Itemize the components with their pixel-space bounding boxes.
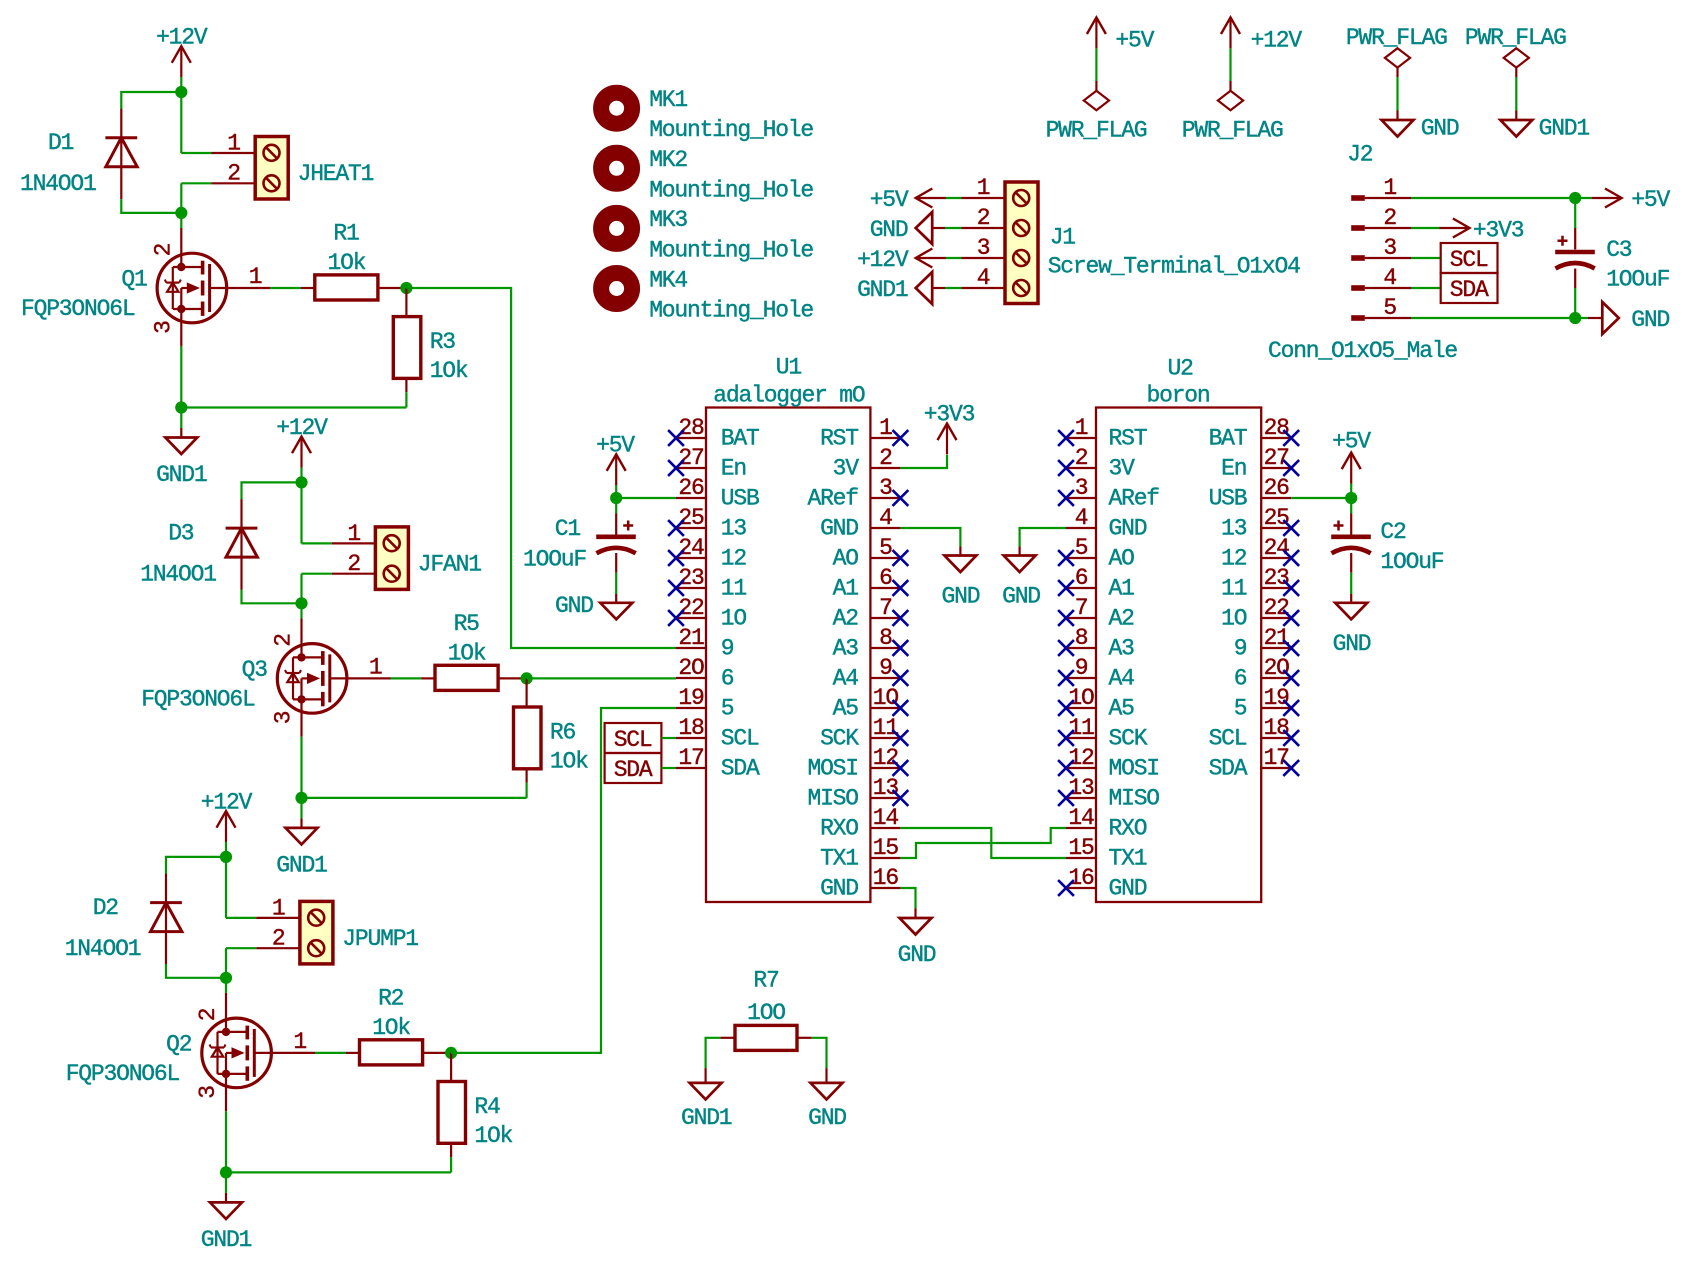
wire: [180, 92, 182, 153]
svg-text:GND: GND: [820, 876, 858, 902]
svg-text:+5V: +5V: [596, 432, 635, 458]
J1 pin 3: [962, 257, 1006, 259]
U1 pin 17 SDA: [676, 767, 706, 769]
wire J2 pin3 SCL: [1411, 257, 1441, 259]
svg-text:12: 12: [873, 745, 899, 771]
svg-text:GND: GND: [1421, 115, 1459, 141]
U1 pin 15 TX1: [870, 857, 900, 859]
power +5V (J1): [916, 197, 946, 199]
svg-text:D1: D1: [48, 130, 74, 156]
wire U1 pin16 GND: [900, 888, 915, 909]
svg-text:1O: 1O: [1221, 606, 1247, 632]
ground GND (U1 pin4): [944, 556, 976, 573]
power flag PWR_FLAG 3: [1385, 48, 1410, 67]
ground GND (C2): [1335, 603, 1367, 620]
transistor Q1 gate pin 1: [227, 287, 271, 289]
svg-text:SCL: SCL: [1450, 247, 1488, 273]
wire: [812, 1038, 827, 1068]
svg-text:PWR_FLAG: PWR_FLAG: [1346, 25, 1447, 51]
U1 pin 18 SCL: [676, 737, 706, 739]
svg-text:+3V3: +3V3: [1473, 218, 1524, 244]
svg-text:12: 12: [721, 546, 747, 572]
svg-text:R3: R3: [430, 329, 456, 355]
svg-text:3: 3: [150, 321, 176, 334]
J2 pin 3: [1351, 255, 1365, 261]
U2 pin 13 MISO: [1066, 797, 1096, 799]
svg-text:3: 3: [1383, 235, 1396, 261]
svg-text:A2: A2: [1109, 606, 1135, 632]
svg-text:19: 19: [678, 685, 704, 711]
power +3V3 (J2): [1440, 227, 1470, 229]
U2 pin 4 GND: [1066, 527, 1096, 529]
wire: [270, 287, 301, 289]
svg-text:boron: boron: [1146, 383, 1209, 409]
svg-text:R4: R4: [474, 1094, 500, 1120]
resistor R6 10k: [525, 678, 527, 707]
svg-text:6: 6: [1234, 666, 1247, 692]
wire U1 TX1 to U2 RX0: [900, 828, 1066, 858]
transistor Q2 FQP30N06L: [202, 1018, 272, 1088]
svg-text:1OOuF: 1OOuF: [1380, 549, 1443, 575]
ground GND (J1): [932, 227, 945, 229]
connector JHEAT1 pin 2: [212, 182, 256, 184]
junction: [175, 207, 187, 219]
J2 pin 1: [1351, 195, 1365, 201]
wire U2 pin4 GND: [1020, 528, 1066, 547]
junction: [295, 476, 307, 488]
svg-text:6: 6: [879, 565, 892, 591]
power flag PWR_FLAG 4: [1504, 48, 1529, 67]
transistor Q1 source pin 3: [180, 309, 182, 346]
svg-text:SDA: SDA: [614, 757, 653, 783]
svg-text:2: 2: [977, 205, 990, 231]
junction: [220, 972, 232, 984]
wire to U1 pin 26: [616, 497, 676, 499]
U1 pin 1 RST: [870, 437, 900, 439]
svg-text:1: 1: [272, 895, 285, 921]
connector JHEAT1 body: [255, 137, 288, 200]
U1 pin 2 3V: [870, 467, 900, 469]
svg-text:21: 21: [1264, 625, 1290, 651]
ground GND (U2 pin4): [1004, 556, 1036, 573]
svg-text:3V: 3V: [833, 456, 860, 482]
svg-text:2O: 2O: [678, 655, 704, 681]
svg-text:FQP3ONO6L: FQP3ONO6L: [141, 686, 255, 712]
mounting hole MK2: [601, 153, 632, 184]
svg-text:26: 26: [1264, 475, 1290, 501]
U2 pin 10 A5: [1066, 707, 1096, 709]
svg-text:3: 3: [271, 711, 297, 724]
svg-text:3: 3: [195, 1086, 221, 1099]
svg-text:USB: USB: [1209, 486, 1247, 512]
U2 pin 19 5: [1261, 707, 1291, 709]
svg-text:TX1: TX1: [820, 846, 858, 872]
U1 pin 14 RX0: [870, 827, 900, 829]
U1 pin 27 En: [676, 467, 706, 469]
U1 pin 3 ARef: [870, 497, 900, 499]
svg-text:GND: GND: [808, 1105, 846, 1131]
svg-text:C1: C1: [555, 516, 581, 542]
svg-text:BAT: BAT: [1209, 426, 1247, 452]
svg-text:R7: R7: [753, 968, 778, 994]
global label SDA (J2): [1441, 273, 1498, 303]
wire: [525, 783, 527, 798]
svg-text:+12V: +12V: [1251, 27, 1303, 53]
svg-text:MOSI: MOSI: [807, 756, 857, 782]
wire gate net to U1: [406, 288, 676, 648]
svg-text:GND: GND: [1109, 516, 1147, 542]
U2 pin 14 RX0: [1066, 827, 1096, 829]
svg-text:3: 3: [1075, 475, 1088, 501]
U2 pin 25 13: [1261, 527, 1291, 529]
svg-text:1: 1: [249, 264, 262, 290]
global label SCL (U1): [605, 723, 662, 753]
power +5V (J2): [1592, 197, 1622, 199]
U2 pin 22 10: [1261, 617, 1291, 619]
svg-text:SCL: SCL: [614, 727, 652, 753]
svg-text:SDA: SDA: [721, 756, 760, 782]
wire: [405, 392, 407, 407]
junction: [521, 672, 533, 684]
wire U1 RX0 to U2 TX1: [900, 828, 1066, 858]
U1 pin 16 GND: [870, 887, 900, 889]
diode D3 1N4001: [240, 499, 242, 589]
wire: [225, 857, 227, 918]
svg-text:USB: USB: [721, 486, 759, 512]
resistor R5 10k: [421, 677, 435, 679]
U1 pin 28 BAT: [676, 437, 706, 439]
svg-text:27: 27: [678, 445, 703, 471]
svg-text:SCK: SCK: [1109, 726, 1148, 752]
svg-text:1N4OO1: 1N4OO1: [20, 171, 96, 197]
ground GND1 (J1): [932, 287, 945, 289]
svg-text:Mounting_Hole: Mounting_Hole: [649, 177, 813, 203]
svg-text:6: 6: [1075, 565, 1088, 591]
wire J2 pin1 +5V: [1411, 197, 1575, 199]
svg-text:4: 4: [879, 505, 892, 531]
resistor R1 10k: [301, 287, 315, 289]
svg-text:JPUMP1: JPUMP1: [342, 926, 418, 952]
svg-text:2: 2: [271, 634, 297, 647]
power +12V (JPUMP1 branch): [225, 811, 227, 842]
U2 pin 9 A4: [1066, 677, 1096, 679]
svg-text:A4: A4: [1109, 666, 1135, 692]
transistor Q2 source pin 3: [225, 1074, 227, 1111]
wire U1 pin4 GND: [900, 528, 960, 547]
J2 pin 4: [1351, 285, 1365, 291]
U2 pin 24 12: [1261, 557, 1291, 559]
svg-text:1Ok: 1Ok: [550, 748, 588, 774]
svg-text:+5V: +5V: [870, 187, 909, 213]
junction: [610, 492, 622, 504]
svg-text:11: 11: [1068, 715, 1094, 741]
svg-text:PWR_FLAG: PWR_FLAG: [1046, 118, 1147, 144]
svg-text:12: 12: [1221, 546, 1247, 572]
wire bottom rail: [226, 1171, 451, 1173]
wire bottom rail: [302, 797, 527, 799]
ground GND1: [180, 408, 182, 429]
svg-text:1: 1: [1075, 415, 1088, 441]
svg-text:24: 24: [1264, 535, 1290, 561]
svg-text:14: 14: [873, 805, 899, 831]
svg-text:17: 17: [1264, 745, 1289, 771]
U1 pin 24 12: [676, 557, 706, 559]
J1 pin 4: [962, 287, 1006, 289]
capacitor C1 100uF: [615, 498, 617, 514]
svg-text:RXO: RXO: [1109, 816, 1147, 842]
svg-text:3: 3: [879, 475, 892, 501]
U1 pin 25 13: [676, 527, 706, 529]
transistor Q3 FQP30N06L: [277, 644, 347, 714]
transistor Q1 FQP30N06L: [157, 253, 227, 323]
svg-text:2O: 2O: [1264, 655, 1290, 681]
svg-text:1: 1: [1383, 175, 1396, 201]
U1 pin 7 A2: [870, 617, 900, 619]
U2 pin 6 A1: [1066, 587, 1096, 589]
diode D1 1N4001: [120, 109, 122, 199]
ground GND (flag 3): [1382, 120, 1414, 137]
junction: [175, 86, 187, 98]
svg-text:1: 1: [227, 131, 240, 157]
svg-text:4: 4: [977, 265, 990, 291]
svg-text:9: 9: [1075, 655, 1088, 681]
power +12V (J1): [916, 257, 946, 259]
wire J2 pin4 SDA: [1411, 287, 1441, 289]
wire: [706, 1038, 721, 1068]
svg-text:GND1: GND1: [276, 852, 327, 878]
svg-text:GND1: GND1: [156, 462, 207, 488]
svg-text:+5V: +5V: [1631, 187, 1670, 213]
svg-text:15: 15: [873, 835, 899, 861]
transistor Q3 drain pin 2: [300, 603, 302, 618]
svg-text:Mounting_Hole: Mounting_Hole: [649, 237, 813, 263]
svg-text:A3: A3: [1109, 636, 1135, 662]
U2 pin 8 A3: [1066, 647, 1096, 649]
svg-text:C2: C2: [1380, 519, 1406, 545]
svg-text:J2: J2: [1347, 141, 1373, 167]
svg-text:1: 1: [347, 521, 360, 547]
svg-text:25: 25: [1264, 505, 1290, 531]
svg-text:1: 1: [977, 175, 990, 201]
wire: [121, 199, 181, 213]
svg-text:A3: A3: [833, 636, 859, 662]
svg-text:16: 16: [1068, 865, 1094, 891]
svg-text:4: 4: [1383, 265, 1396, 291]
U1 pin 11 SCK: [870, 737, 900, 739]
U2 pin 12 MOSI: [1066, 767, 1096, 769]
junction: [1569, 192, 1581, 204]
svg-text:28: 28: [678, 415, 704, 441]
power flag PWR_FLAG 2: [1229, 81, 1231, 91]
svg-text:GND: GND: [1002, 584, 1040, 610]
svg-text:1O: 1O: [721, 606, 747, 632]
U2 pin 2 3V: [1066, 467, 1096, 469]
wire gate net to U1: [451, 708, 676, 1053]
svg-text:Mounting_Hole: Mounting_Hole: [649, 298, 813, 324]
J2 pin 5: [1351, 315, 1365, 321]
svg-text:RST: RST: [1109, 426, 1147, 452]
svg-text:13: 13: [721, 516, 747, 542]
wire: [302, 573, 332, 575]
svg-text:D3: D3: [168, 520, 194, 546]
svg-text:MOSI: MOSI: [1109, 756, 1159, 782]
svg-text:A5: A5: [833, 696, 859, 722]
svg-text:17: 17: [678, 745, 703, 771]
svg-text:GND1: GND1: [681, 1105, 732, 1131]
svg-text:adalogger mO: adalogger mO: [713, 383, 865, 409]
resistor R3 10k: [405, 288, 407, 317]
connector JFAN1 pin 1: [332, 542, 376, 544]
svg-text:SDA: SDA: [1450, 277, 1489, 303]
svg-text:GND: GND: [1631, 307, 1669, 333]
U2 pin 23 11: [1261, 587, 1291, 589]
connector JFAN1 body: [375, 527, 408, 590]
connector JPUMP1 pin 1: [256, 917, 300, 919]
svg-text:GND: GND: [870, 217, 908, 243]
power +12V (JFAN1 branch): [300, 437, 302, 468]
svg-text:JHEAT1: JHEAT1: [298, 161, 374, 187]
svg-text:+12V: +12V: [201, 789, 253, 815]
U1 pin 9 A4: [870, 677, 900, 679]
svg-text:26: 26: [678, 475, 704, 501]
svg-text:15: 15: [1068, 835, 1094, 861]
svg-text:23: 23: [1264, 565, 1290, 591]
svg-text:3V: 3V: [1109, 456, 1136, 482]
svg-text:9: 9: [1234, 636, 1247, 662]
svg-text:GND1: GND1: [1539, 115, 1590, 141]
svg-text:A2: A2: [833, 606, 859, 632]
wire: [391, 677, 422, 679]
svg-text:2: 2: [1075, 445, 1088, 471]
svg-text:5: 5: [1075, 535, 1088, 561]
wire: [450, 1157, 452, 1172]
transistor Q3 gate pin 1: [347, 677, 391, 679]
svg-text:MK4: MK4: [649, 267, 687, 293]
svg-text:1N4OO1: 1N4OO1: [140, 561, 216, 587]
svg-text:Conn_O1xO5_Male: Conn_O1xO5_Male: [1268, 338, 1457, 364]
svg-text:+5V: +5V: [1115, 27, 1154, 53]
svg-text:AO: AO: [1109, 546, 1135, 572]
svg-text:5: 5: [1234, 696, 1247, 722]
junction: [400, 282, 412, 294]
wire: [300, 737, 302, 798]
svg-text:R2: R2: [378, 985, 404, 1011]
ground GND (U1 pin16): [900, 918, 932, 935]
junction: [220, 851, 232, 863]
svg-text:MK3: MK3: [649, 207, 687, 233]
svg-text:13: 13: [1068, 775, 1094, 801]
svg-text:+12V: +12V: [276, 415, 328, 441]
diode D2 1N4001: [165, 874, 167, 964]
svg-text:GND: GND: [555, 593, 593, 619]
svg-text:1Ok: 1Ok: [474, 1123, 512, 1149]
svg-text:SCK: SCK: [820, 726, 859, 752]
capacitor C3 100uF: [1574, 198, 1576, 228]
U2 pin 18 SCL: [1261, 737, 1291, 739]
svg-text:13: 13: [1221, 516, 1247, 542]
mounting hole MK4: [601, 273, 632, 304]
svg-text:8: 8: [1075, 625, 1088, 651]
U1 pin 10 A5: [870, 707, 900, 709]
svg-text:2: 2: [150, 243, 176, 256]
svg-text:RST: RST: [820, 426, 858, 452]
wire: [315, 1052, 346, 1054]
U2 pin 26 USB: [1261, 497, 1291, 499]
svg-text:11: 11: [721, 576, 747, 602]
svg-text:MISO: MISO: [807, 786, 858, 812]
svg-text:SCL: SCL: [721, 726, 759, 752]
wire: [242, 590, 302, 604]
svg-text:D2: D2: [93, 895, 119, 921]
U2 pin 15 TX1: [1066, 857, 1096, 859]
ground GND1 (R7): [690, 1083, 722, 1100]
U1 pin 6 A1: [870, 587, 900, 589]
svg-text:Q1: Q1: [121, 267, 147, 293]
svg-text:1Ok: 1Ok: [430, 358, 468, 384]
junction: [295, 792, 307, 804]
svg-text:ARef: ARef: [1109, 486, 1160, 512]
wire: [300, 482, 302, 543]
wire: [226, 947, 256, 949]
U1 pin 20 6: [676, 677, 706, 679]
svg-text:MISO: MISO: [1109, 786, 1160, 812]
U2 pin 5 A0: [1066, 557, 1096, 559]
wire: [181, 182, 211, 184]
power flag PWR_FLAG 1: [1095, 81, 1097, 91]
svg-text:2: 2: [1383, 205, 1396, 231]
U1 pin 13 MISO: [870, 797, 900, 799]
junction: [175, 401, 187, 413]
connector JPUMP1 pin 2: [256, 947, 300, 949]
svg-text:AO: AO: [833, 546, 859, 572]
svg-text:1: 1: [879, 415, 892, 441]
J2 pin 2: [1351, 225, 1365, 231]
svg-text:A1: A1: [833, 576, 859, 602]
svg-text:1OO: 1OO: [747, 1000, 785, 1026]
svg-text:Screw_Terminal_O1xO4: Screw_Terminal_O1xO4: [1048, 254, 1300, 280]
svg-text:GND: GND: [898, 942, 936, 968]
svg-text:SDA: SDA: [1209, 756, 1248, 782]
svg-text:27: 27: [1264, 445, 1289, 471]
svg-text:7: 7: [1075, 595, 1088, 621]
connector JFAN1 pin 2: [332, 573, 376, 575]
junction: [445, 1047, 457, 1059]
svg-text:PWR_FLAG: PWR_FLAG: [1465, 25, 1566, 51]
U1 pin 8 A3: [870, 647, 900, 649]
svg-text:2: 2: [879, 445, 892, 471]
svg-text:22: 22: [1264, 595, 1290, 621]
svg-text:GND1: GND1: [857, 277, 908, 303]
svg-text:GND: GND: [1109, 876, 1147, 902]
connector JHEAT1 pin 1: [212, 152, 256, 154]
svg-text:A1: A1: [1109, 576, 1135, 602]
ground GND (J2): [1602, 302, 1619, 334]
U2 pin 7 A2: [1066, 617, 1096, 619]
svg-text:R5: R5: [454, 611, 480, 637]
svg-text:Q3: Q3: [242, 657, 268, 683]
global label SCL (J2): [1441, 243, 1498, 273]
transistor Q3 source pin 3: [300, 699, 302, 736]
ground GND (R7): [811, 1083, 843, 1100]
svg-text:2: 2: [347, 551, 360, 577]
capacitor C2 100uF: [1350, 498, 1352, 514]
svg-text:1Ok: 1Ok: [372, 1015, 410, 1041]
wire U2 pin26: [1291, 497, 1351, 499]
U2 pin 21 9: [1261, 647, 1291, 649]
svg-text:1OOuF: 1OOuF: [1606, 267, 1669, 293]
svg-text:FQP3ONO6L: FQP3ONO6L: [66, 1061, 180, 1087]
ground GND1: [300, 798, 302, 819]
